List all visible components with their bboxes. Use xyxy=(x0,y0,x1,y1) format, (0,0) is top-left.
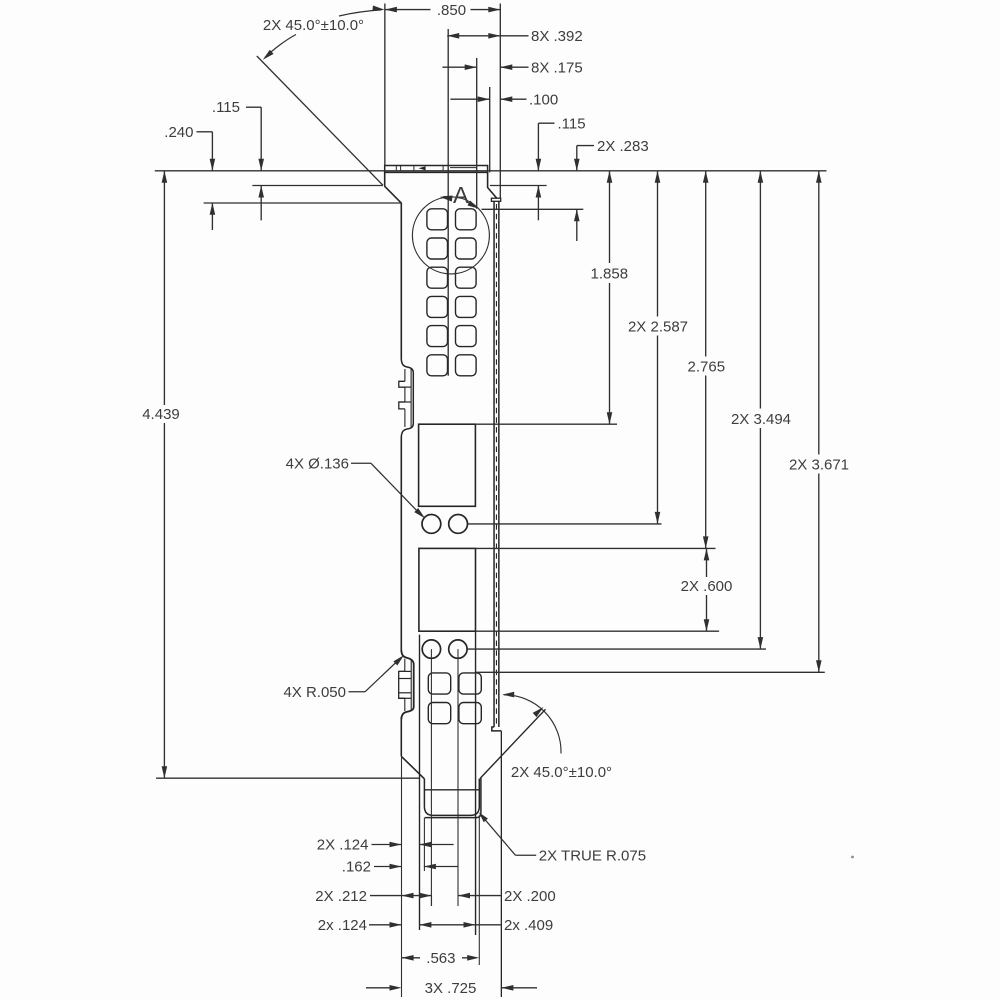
svg-text:1.858: 1.858 xyxy=(591,266,629,283)
svg-text:.850: .850 xyxy=(437,2,466,19)
svg-text:.100: .100 xyxy=(529,91,558,108)
svg-text:A: A xyxy=(453,182,469,208)
svg-text:2.765: 2.765 xyxy=(688,359,726,376)
svg-text:2X .283: 2X .283 xyxy=(597,138,649,155)
svg-text:.240: .240 xyxy=(164,124,193,141)
svg-text:2X 2.587: 2X 2.587 xyxy=(628,319,688,336)
svg-text:2X 45.0°±10.0°: 2X 45.0°±10.0° xyxy=(511,764,612,781)
svg-text:2X .600: 2X .600 xyxy=(681,578,733,595)
svg-text:2X .212: 2X .212 xyxy=(315,888,367,905)
svg-text:2X .124: 2X .124 xyxy=(317,837,369,854)
svg-text:.115: .115 xyxy=(212,99,240,116)
svg-text:4.439: 4.439 xyxy=(142,406,180,423)
svg-text:.563: .563 xyxy=(426,950,455,967)
svg-text:2x .409: 2x .409 xyxy=(504,917,553,934)
svg-text:8X .392: 8X .392 xyxy=(531,28,583,45)
svg-text:2X .200: 2X .200 xyxy=(504,888,556,905)
svg-text:8X .175: 8X .175 xyxy=(531,59,583,76)
svg-text:.115: .115 xyxy=(558,115,586,132)
svg-text:2x .124: 2x .124 xyxy=(318,917,367,934)
svg-text:2X TRUE R.075: 2X TRUE R.075 xyxy=(539,847,646,864)
svg-text:.162: .162 xyxy=(342,859,371,876)
svg-text:4X R.050: 4X R.050 xyxy=(283,684,346,701)
svg-text:4X Ø.136: 4X Ø.136 xyxy=(286,456,349,473)
svg-text:3X .725: 3X .725 xyxy=(425,980,477,997)
svg-text:2X 45.0°±10.0°: 2X 45.0°±10.0° xyxy=(263,17,364,34)
svg-text:2X 3.671: 2X 3.671 xyxy=(789,457,849,474)
svg-text:2X 3.494: 2X 3.494 xyxy=(731,411,791,428)
